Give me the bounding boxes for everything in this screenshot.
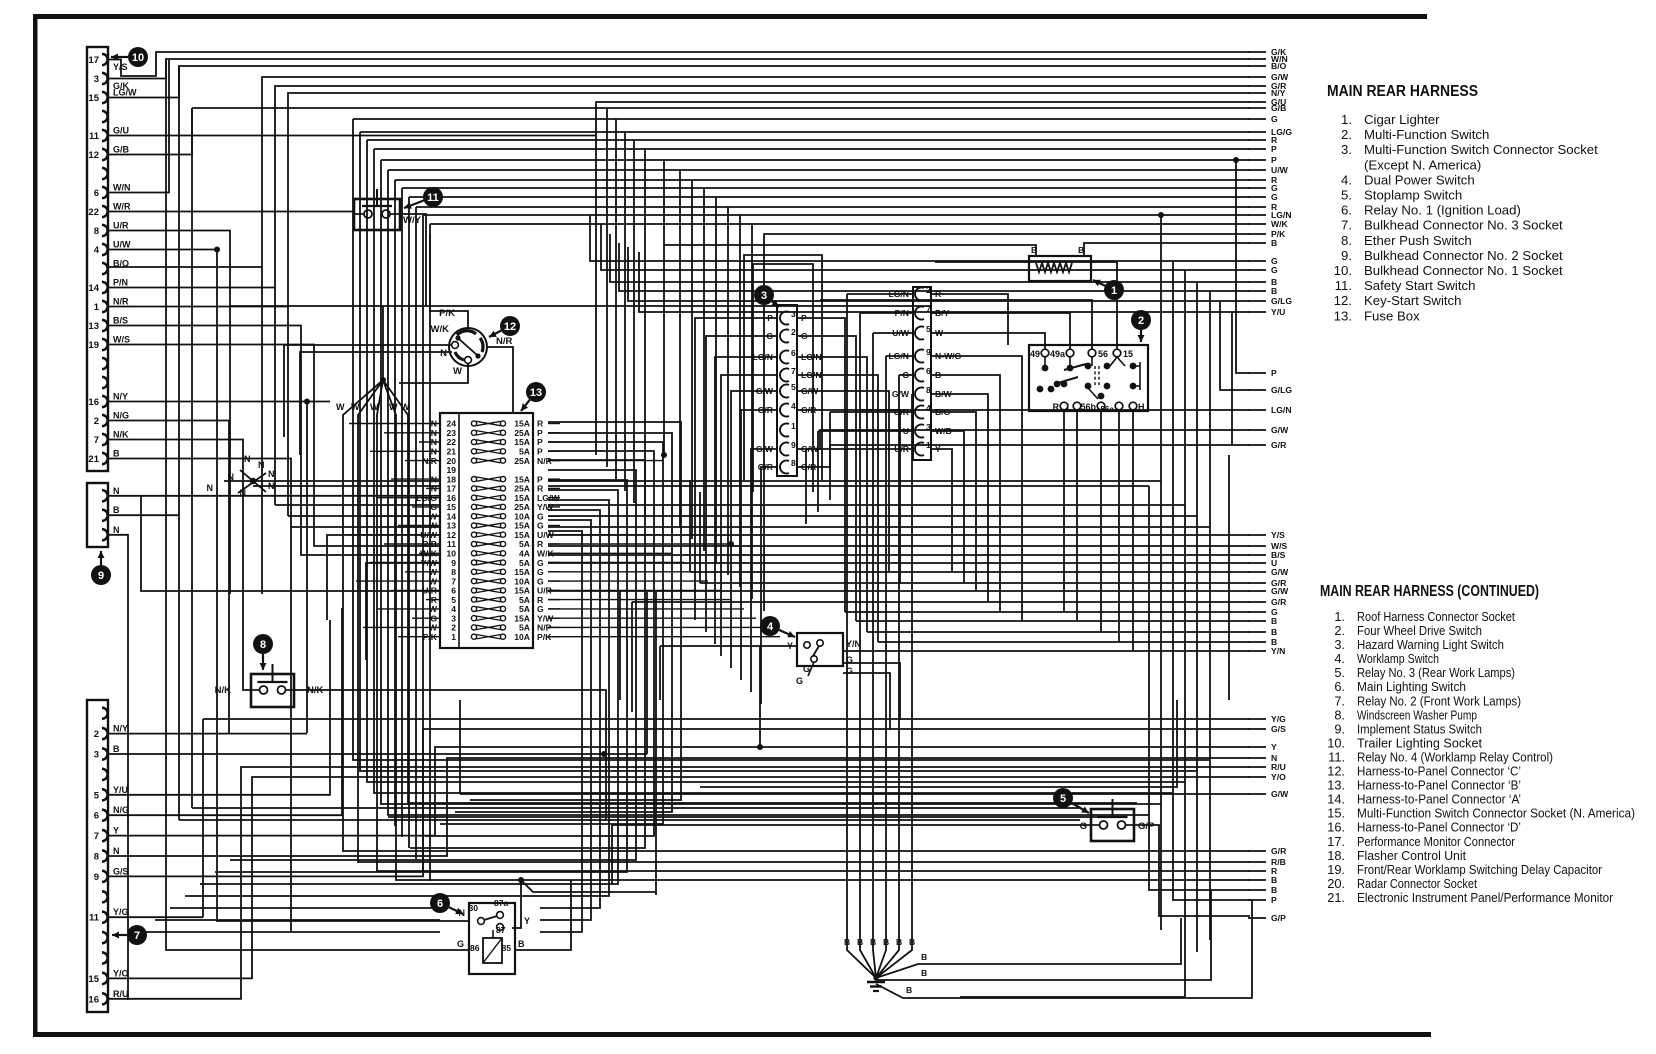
svg-text:6.: 6.: [1334, 679, 1345, 694]
svg-text:W/K: W/K: [1271, 219, 1288, 229]
svg-text:9: 9: [98, 570, 104, 582]
svg-text:W/S: W/S: [113, 335, 130, 345]
svg-text:Y/N: Y/N: [846, 639, 861, 649]
svg-text:86: 86: [470, 943, 480, 953]
svg-text:3.: 3.: [1341, 142, 1352, 157]
svg-text:7: 7: [791, 366, 796, 376]
svg-text:G/B: G/B: [1271, 103, 1286, 113]
svg-text:B: B: [906, 985, 912, 995]
svg-text:Multi-Function Switch Connecto: Multi-Function Switch Connector Socket (…: [1357, 806, 1635, 821]
svg-text:G/R: G/R: [801, 462, 817, 472]
svg-text:B/Y: B/Y: [935, 308, 950, 318]
svg-text:20.: 20.: [1327, 876, 1345, 891]
svg-text:1: 1: [1111, 285, 1117, 297]
svg-text:6: 6: [437, 898, 443, 910]
svg-text:G/P: G/P: [1271, 913, 1286, 923]
svg-text:Y/S: Y/S: [1271, 530, 1285, 540]
svg-text:U: U: [903, 426, 909, 436]
svg-text:LG/N: LG/N: [801, 370, 822, 380]
svg-text:2: 2: [94, 416, 99, 427]
svg-text:Y: Y: [935, 444, 941, 454]
svg-text:15: 15: [88, 93, 99, 104]
svg-text:U/W: U/W: [113, 240, 131, 250]
svg-text:Harness-to-Panel Connector ‘D’: Harness-to-Panel Connector ‘D’: [1357, 820, 1521, 835]
svg-text:N/Y: N/Y: [113, 724, 128, 734]
svg-text:U/R: U/R: [894, 444, 910, 454]
svg-text:Relay No. 3 (Rear Work Lamps): Relay No. 3 (Rear Work Lamps): [1357, 665, 1515, 680]
svg-text:LG/N: LG/N: [801, 352, 822, 362]
svg-text:MAIN REAR HARNESS (CONTINUED): MAIN REAR HARNESS (CONTINUED): [1320, 583, 1539, 600]
svg-text:N-W/G: N-W/G: [935, 351, 962, 361]
svg-text:B: B: [1271, 627, 1277, 637]
svg-text:Cigar Lighter: Cigar Lighter: [1364, 112, 1440, 127]
svg-text:N/G: N/G: [113, 411, 129, 421]
svg-text:Electronic Instrument Panel/Pe: Electronic Instrument Panel/Performance …: [1357, 890, 1614, 905]
svg-text:5: 5: [1060, 793, 1066, 805]
svg-text:9: 9: [94, 872, 99, 883]
svg-text:Y/U: Y/U: [1271, 307, 1285, 317]
svg-text:49: 49: [1030, 349, 1040, 359]
svg-text:B: B: [113, 505, 120, 515]
svg-text:P/K: P/K: [537, 632, 552, 642]
svg-text:B: B: [113, 449, 120, 459]
svg-text:W/B: W/B: [935, 426, 952, 436]
svg-text:5: 5: [791, 382, 796, 392]
svg-text:G/W: G/W: [1271, 789, 1289, 799]
svg-text:B: B: [1271, 286, 1277, 296]
svg-text:B: B: [857, 937, 863, 947]
svg-text:G: G: [1080, 821, 1087, 832]
svg-text:56b: 56b: [1080, 402, 1096, 412]
svg-text:B: B: [935, 370, 941, 380]
svg-text:G/S: G/S: [1271, 724, 1286, 734]
svg-text:Y: Y: [787, 641, 793, 651]
svg-text:G: G: [796, 676, 803, 686]
svg-text:Y: Y: [524, 916, 530, 926]
svg-text:B: B: [844, 937, 850, 947]
svg-text:2.: 2.: [1334, 623, 1345, 638]
svg-text:B: B: [1031, 245, 1037, 255]
svg-text:Key-Start Switch: Key-Start Switch: [1364, 293, 1461, 308]
svg-text:B: B: [870, 937, 876, 947]
svg-text:2: 2: [94, 729, 99, 740]
svg-text:G/W: G/W: [1271, 425, 1289, 435]
svg-text:11: 11: [89, 913, 100, 924]
svg-text:12.: 12.: [1334, 293, 1352, 308]
svg-text:Stoplamp Switch: Stoplamp Switch: [1364, 188, 1462, 203]
svg-text:G: G: [902, 370, 909, 380]
svg-text:G: G: [801, 331, 808, 341]
svg-text:16: 16: [88, 994, 99, 1005]
svg-text:Y/N: Y/N: [1271, 646, 1285, 656]
svg-text:3: 3: [94, 74, 99, 85]
svg-text:P: P: [1271, 155, 1277, 165]
svg-text:7: 7: [94, 831, 99, 842]
svg-text:G/LG: G/LG: [1271, 296, 1292, 306]
svg-text:49a: 49a: [1050, 349, 1066, 359]
svg-text:P: P: [767, 313, 773, 323]
svg-text:15: 15: [88, 974, 99, 985]
svg-text:6: 6: [94, 811, 99, 822]
svg-text:15.: 15.: [1327, 806, 1345, 821]
svg-text:LG/N: LG/N: [888, 351, 909, 361]
svg-text:R: R: [935, 289, 942, 299]
svg-text:12.: 12.: [1327, 764, 1345, 779]
svg-text:N: N: [440, 348, 447, 359]
svg-text:9: 9: [926, 347, 931, 357]
svg-text:B/G: B/G: [935, 407, 951, 417]
svg-text:5: 5: [926, 324, 931, 334]
svg-text:6: 6: [926, 366, 931, 376]
svg-text:N/R: N/R: [422, 456, 438, 466]
svg-text:G: G: [1271, 114, 1278, 124]
svg-text:3: 3: [926, 422, 931, 432]
svg-text:30: 30: [468, 903, 478, 913]
svg-text:G: G: [1271, 192, 1278, 202]
svg-text:Multi-Function Switch Connecto: Multi-Function Switch Connector Socket: [1364, 142, 1598, 157]
svg-text:4.: 4.: [1341, 172, 1352, 187]
svg-text:P/N: P/N: [895, 308, 909, 318]
svg-text:LG/N: LG/N: [752, 352, 773, 362]
svg-text:8: 8: [926, 385, 931, 395]
svg-text:Y/U: Y/U: [113, 785, 128, 795]
svg-text:2.: 2.: [1341, 127, 1352, 142]
svg-text:Front/Rear Worklamp Switching: Front/Rear Worklamp Switching Delay Capa…: [1357, 862, 1603, 877]
svg-text:17.: 17.: [1327, 834, 1345, 849]
svg-text:N: N: [268, 481, 275, 491]
svg-text:17: 17: [88, 55, 99, 66]
svg-text:7.: 7.: [1341, 218, 1352, 233]
svg-text:8: 8: [94, 226, 99, 237]
svg-text:G/P: G/P: [1138, 821, 1155, 832]
svg-text:Relay No. 2 (Front Work Lamps): Relay No. 2 (Front Work Lamps): [1357, 693, 1521, 708]
svg-text:21.: 21.: [1327, 890, 1345, 905]
svg-text:P/K: P/K: [439, 308, 455, 319]
svg-text:56: 56: [1098, 349, 1108, 359]
svg-text:25A: 25A: [514, 456, 530, 466]
svg-text:N/K: N/K: [307, 685, 324, 696]
svg-text:G/W: G/W: [892, 389, 910, 399]
svg-text:G: G: [803, 664, 810, 674]
svg-text:18.: 18.: [1327, 848, 1345, 863]
svg-text:5: 5: [94, 790, 100, 801]
svg-text:Trailer Lighting Socket: Trailer Lighting Socket: [1357, 735, 1482, 750]
svg-text:11: 11: [89, 131, 100, 142]
svg-text:W: W: [453, 366, 462, 377]
svg-text:N: N: [240, 488, 247, 498]
svg-text:Fuse Box: Fuse Box: [1364, 308, 1420, 323]
svg-text:W: W: [389, 402, 398, 412]
svg-text:13: 13: [530, 387, 542, 399]
svg-text:16.: 16.: [1327, 820, 1345, 835]
svg-text:6: 6: [791, 348, 796, 358]
svg-text:B: B: [883, 937, 889, 947]
svg-text:G/W: G/W: [756, 386, 774, 396]
svg-text:19: 19: [88, 340, 99, 351]
svg-text:4: 4: [767, 621, 774, 633]
svg-text:P: P: [1271, 144, 1277, 154]
svg-text:G/R: G/R: [894, 407, 910, 417]
svg-text:G: G: [766, 331, 773, 341]
svg-text:7: 7: [926, 304, 931, 314]
svg-text:MAIN REAR HARNESS: MAIN REAR HARNESS: [1327, 83, 1478, 100]
svg-text:Safety Start Switch: Safety Start Switch: [1364, 278, 1475, 293]
svg-text:G: G: [846, 655, 853, 665]
svg-text:Bulkhead Connector No. 1 Socke: Bulkhead Connector No. 1 Socket: [1364, 263, 1563, 278]
svg-text:6.: 6.: [1341, 203, 1352, 218]
svg-text:Radar Connector Socket: Radar Connector Socket: [1357, 876, 1477, 891]
svg-text:3: 3: [761, 290, 767, 302]
svg-text:G/R: G/R: [1271, 440, 1287, 450]
svg-text:B: B: [1271, 238, 1277, 248]
svg-text:Relay No. 4 (Worklamp Relay Co: Relay No. 4 (Worklamp Relay Control): [1357, 750, 1553, 765]
svg-text:W: W: [401, 402, 410, 412]
svg-text:4.: 4.: [1334, 651, 1345, 666]
svg-text:P/N: P/N: [113, 278, 128, 288]
svg-text:LG/N: LG/N: [888, 289, 909, 299]
svg-text:G: G: [846, 666, 853, 676]
svg-text:14.: 14.: [1327, 792, 1345, 807]
svg-text:1.: 1.: [1334, 609, 1345, 624]
svg-text:N: N: [268, 469, 275, 479]
svg-text:H: H: [1138, 402, 1145, 412]
svg-text:G/B: G/B: [113, 145, 130, 155]
svg-text:G/R: G/R: [801, 405, 817, 415]
svg-text:G: G: [1271, 265, 1278, 275]
svg-text:N: N: [207, 483, 214, 493]
svg-text:(Except N. America): (Except N. America): [1364, 157, 1481, 172]
svg-text:B/S: B/S: [113, 316, 128, 326]
svg-text:N: N: [113, 486, 120, 496]
svg-text:Windscreen Washer Pump: Windscreen Washer Pump: [1357, 707, 1477, 722]
svg-text:G/W: G/W: [756, 444, 774, 454]
svg-text:Y/G: Y/G: [113, 907, 129, 917]
svg-text:W/K: W/K: [431, 324, 450, 335]
svg-text:W: W: [336, 402, 345, 412]
svg-text:N/R: N/R: [113, 297, 129, 307]
svg-text:B: B: [1271, 616, 1277, 626]
svg-text:N/Y: N/Y: [113, 392, 128, 402]
svg-text:B: B: [921, 952, 927, 962]
svg-text:Harness-to-Panel Connector ‘A’: Harness-to-Panel Connector ‘A’: [1357, 792, 1521, 807]
svg-text:B: B: [518, 939, 525, 949]
svg-text:G/U: G/U: [113, 126, 129, 136]
svg-text:11.: 11.: [1328, 750, 1345, 765]
svg-text:19.: 19.: [1327, 862, 1345, 877]
svg-text:1: 1: [791, 421, 796, 431]
svg-text:B: B: [1271, 875, 1277, 885]
svg-text:8: 8: [260, 639, 266, 651]
svg-text:P/K: P/K: [423, 632, 438, 642]
svg-text:2: 2: [1138, 315, 1144, 327]
svg-text:12: 12: [504, 321, 516, 333]
svg-text:16: 16: [88, 397, 99, 408]
svg-text:N: N: [244, 454, 251, 464]
svg-text:LG/N: LG/N: [1271, 405, 1292, 415]
svg-text:N/R: N/R: [496, 336, 513, 347]
svg-text:6: 6: [94, 188, 99, 199]
svg-text:G/R: G/R: [758, 405, 774, 415]
svg-text:W: W: [351, 402, 360, 412]
svg-text:W/Y: W/Y: [403, 215, 422, 226]
svg-text:G/R: G/R: [1271, 846, 1287, 856]
svg-text:Y/O: Y/O: [113, 968, 129, 978]
svg-text:21: 21: [88, 454, 99, 465]
svg-text:N/G: N/G: [113, 805, 129, 815]
svg-text:W/R: W/R: [113, 202, 131, 212]
svg-text:P: P: [1271, 368, 1277, 378]
svg-text:11: 11: [427, 192, 439, 204]
svg-text:B/O: B/O: [113, 259, 129, 269]
svg-text:Y: Y: [113, 826, 119, 836]
svg-text:3.: 3.: [1334, 637, 1345, 652]
svg-text:N: N: [113, 846, 120, 856]
svg-text:5.: 5.: [1334, 665, 1345, 680]
svg-text:LG/W: LG/W: [113, 88, 137, 98]
svg-text:22: 22: [88, 207, 99, 218]
svg-text:Harness-to-Panel Connector ‘C’: Harness-to-Panel Connector ‘C’: [1357, 764, 1521, 779]
svg-text:W: W: [370, 402, 379, 412]
svg-text:Performance Monitor Connector: Performance Monitor Connector: [1357, 834, 1516, 849]
svg-text:1.: 1.: [1341, 112, 1352, 127]
svg-text:G/LG: G/LG: [1271, 385, 1292, 395]
svg-text:P: P: [1271, 895, 1277, 905]
svg-text:10: 10: [132, 52, 144, 64]
svg-text:Implement Status Switch: Implement Status Switch: [1357, 721, 1482, 736]
svg-text:G/R: G/R: [758, 462, 774, 472]
svg-text:W: W: [935, 328, 944, 338]
svg-text:G: G: [457, 939, 464, 949]
svg-text:2: 2: [791, 327, 796, 337]
svg-text:Four Wheel Drive Switch: Four Wheel Drive Switch: [1357, 623, 1482, 638]
svg-text:7.: 7.: [1334, 693, 1345, 708]
svg-text:N: N: [113, 525, 120, 535]
svg-text:Worklamp Switch: Worklamp Switch: [1357, 651, 1439, 666]
svg-text:10.: 10.: [1327, 735, 1345, 750]
svg-text:G/W: G/W: [801, 444, 819, 454]
svg-text:G/W: G/W: [1271, 567, 1289, 577]
svg-text:4: 4: [926, 403, 931, 413]
svg-text:N: N: [228, 472, 235, 482]
svg-text:Main Lighting Switch: Main Lighting Switch: [1357, 679, 1466, 694]
svg-text:14: 14: [88, 283, 99, 294]
svg-text:8.: 8.: [1334, 707, 1345, 722]
svg-text:R/U: R/U: [113, 989, 129, 999]
svg-text:9.: 9.: [1341, 248, 1352, 263]
svg-text:Bulkhead Connector No. 3 Socke: Bulkhead Connector No. 3 Socket: [1364, 218, 1563, 233]
svg-text:G/R: G/R: [1271, 597, 1287, 607]
svg-text:G/W: G/W: [1271, 586, 1289, 596]
svg-text:13.: 13.: [1334, 308, 1352, 323]
svg-text:5.: 5.: [1341, 188, 1352, 203]
svg-text:Relay No. 1 (Ignition Load): Relay No. 1 (Ignition Load): [1364, 203, 1521, 218]
svg-text:Y/G: Y/G: [1271, 714, 1286, 724]
svg-text:G/W: G/W: [801, 386, 819, 396]
svg-text:B: B: [896, 937, 902, 947]
svg-text:Hazard Warning Light Switch: Hazard Warning Light Switch: [1357, 637, 1504, 652]
svg-text:8.: 8.: [1341, 233, 1352, 248]
svg-text:Y/O: Y/O: [1271, 772, 1286, 782]
svg-text:B: B: [113, 744, 120, 754]
svg-text:Flasher Control Unit: Flasher Control Unit: [1357, 848, 1466, 863]
svg-text:N: N: [459, 908, 466, 918]
svg-text:W/N: W/N: [113, 183, 131, 193]
svg-text:Y: Y: [1271, 742, 1277, 752]
svg-text:P: P: [801, 313, 807, 323]
svg-text:B: B: [1078, 245, 1084, 255]
svg-text:G/S: G/S: [113, 866, 129, 876]
svg-text:1: 1: [451, 632, 456, 642]
svg-text:4: 4: [94, 245, 100, 256]
svg-text:56a: 56a: [1100, 405, 1114, 414]
svg-text:10A: 10A: [514, 632, 530, 642]
svg-text:Dual Power Switch: Dual Power Switch: [1364, 172, 1475, 187]
svg-text:B: B: [909, 937, 915, 947]
svg-text:3: 3: [94, 750, 99, 761]
svg-text:Ether Push Switch: Ether Push Switch: [1364, 233, 1472, 248]
svg-text:8: 8: [791, 458, 796, 468]
svg-text:8: 8: [94, 852, 99, 863]
svg-text:3: 3: [791, 309, 796, 319]
svg-text:13.: 13.: [1327, 778, 1345, 793]
svg-text:N: N: [258, 460, 265, 470]
svg-text:Harness-to-Panel Connector ‘B’: Harness-to-Panel Connector ‘B’: [1357, 778, 1521, 793]
svg-text:B: B: [1271, 885, 1277, 895]
svg-text:1: 1: [926, 440, 931, 450]
svg-text:12: 12: [88, 150, 99, 161]
svg-text:B/O: B/O: [1271, 61, 1287, 71]
svg-text:U/W: U/W: [1271, 165, 1289, 175]
svg-text:2: 2: [926, 285, 931, 295]
svg-text:10.: 10.: [1334, 263, 1352, 278]
svg-text:Bulkhead Connector No. 2 Socke: Bulkhead Connector No. 2 Socket: [1364, 248, 1563, 263]
svg-text:87a: 87a: [494, 898, 509, 908]
svg-text:7: 7: [94, 435, 99, 446]
svg-text:R/U: R/U: [1271, 762, 1286, 772]
svg-text:Y/S: Y/S: [113, 62, 128, 72]
svg-text:13: 13: [88, 321, 99, 332]
svg-text:Roof Harness Connector Socket: Roof Harness Connector Socket: [1357, 609, 1515, 624]
svg-text:N/K: N/K: [215, 685, 232, 696]
svg-text:11.: 11.: [1335, 278, 1352, 293]
svg-text:U/R: U/R: [113, 221, 129, 231]
svg-text:N/K: N/K: [113, 430, 129, 440]
svg-text:9.: 9.: [1334, 721, 1345, 736]
svg-text:4: 4: [791, 401, 796, 411]
svg-text:15: 15: [1123, 349, 1133, 359]
svg-text:87: 87: [496, 925, 506, 935]
svg-text:1: 1: [94, 302, 100, 313]
svg-text:N/R: N/R: [537, 456, 553, 466]
svg-text:7: 7: [134, 930, 140, 942]
svg-text:R: R: [1053, 402, 1060, 412]
svg-text:85: 85: [501, 943, 511, 953]
svg-text:Multi-Function Switch: Multi-Function Switch: [1364, 127, 1489, 142]
svg-text:L: L: [1067, 402, 1073, 412]
svg-text:U/W: U/W: [892, 328, 910, 338]
svg-text:B/W: B/W: [935, 389, 953, 399]
svg-text:B: B: [921, 968, 927, 978]
svg-text:9: 9: [791, 440, 796, 450]
